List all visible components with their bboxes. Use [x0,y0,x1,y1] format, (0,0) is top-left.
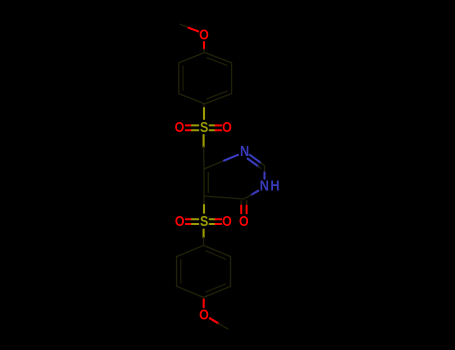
phenyl ring 1 inner aromatic line top-right [207,58,227,66]
bond phenyl2-O7 dark half [203,297,205,299]
bond S2-phenyl2 olive half [203,230,205,238]
double bond S1=O3 red halves [216,125,222,130]
svg-text:H: H [270,178,279,194]
svg-text:O: O [239,213,249,229]
double bond S2=O5 red halves [186,219,192,224]
bond N3-C4 blue half [251,191,258,195]
double bond S2=O6 olive halves [210,219,216,224]
bond O7-CH3 dark half (methyl C bottom) [218,323,228,329]
double bond C4=O4 red halves [241,206,246,214]
bond S1-C6(core) dark half [203,147,205,169]
double bond N1=C2 blue halves [248,155,261,166]
svg-text:O: O [222,213,232,229]
phenyl ring 1 (top 4-methoxyphenyl) [179,53,232,104]
core ring C6=C5 double bond (left edge) [204,169,208,196]
phenyl ring 1 inner aromatic line left [182,66,184,90]
svg-text:S: S [200,119,208,135]
phenyl ring 1 inner aromatic line bottom-right [207,91,227,99]
bond S2-phenyl2 dark half [203,238,205,246]
phenyl ring 2 inner aromatic line top-right [206,251,226,260]
bond S1-C6(core) olive half [203,135,205,147]
svg-text:O: O [222,119,232,135]
bond O7-CH3 red half [210,318,219,323]
double bond S1=O3 olive halves [210,125,216,130]
bond N3-C4 dark half [244,195,252,199]
double bond N1=C2 dark halves [258,163,265,169]
bond C2-N3 blue half [263,173,265,179]
bond C5-S2 dark half [203,196,205,205]
bond phenyl1-S1 olive half [203,108,205,119]
bond O1-C(ring) dark half [203,49,206,53]
svg-text:O: O [175,213,185,229]
double bond S2=O5 olive halves [192,219,198,224]
double bond C4=O4 dark halves [241,201,246,206]
svg-text:O: O [175,119,185,135]
double bond S1=O2 red halves [186,125,192,130]
phenyl ring 2 inner aromatic line bottom-right [206,284,226,292]
double bond S2=O6 red halves [216,219,222,224]
bond phenyl1-S1 dark half [203,104,205,108]
double bond S1=O2 olive halves [192,125,198,130]
bond C6-N1 dark half [204,161,224,169]
svg-text:S: S [200,213,208,229]
svg-text:O: O [199,307,209,323]
bond C5-S2 olive half [203,205,205,213]
svg-text:N: N [240,143,249,159]
bond CH3-O red half near O1 [189,28,199,32]
phenyl ring 2 inner aromatic line left [180,260,182,283]
methyl C (top OMe), bond CH3-O dark half [180,24,188,28]
bond O1-C(ring) red half [203,42,205,49]
bond C6-N1 blue half [224,155,238,161]
svg-text:N: N [260,178,269,194]
svg-text:O: O [199,27,209,43]
bond C4-C5 [204,196,244,199]
phenyl ring 2 (bottom 4-methoxyphenyl) [177,245,231,297]
bond phenyl2-O7 red half [203,299,205,307]
bond C2-N3 dark half [264,166,266,173]
